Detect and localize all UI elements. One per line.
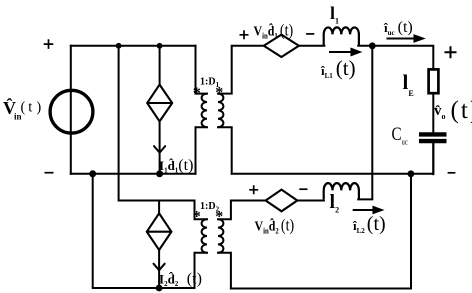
svg-text:îuc(t): îuc(t) xyxy=(383,19,413,37)
svg-text:Vind̂2(t): Vind̂2(t) xyxy=(255,216,295,235)
svg-text:Vind̂1(t): Vind̂1(t) xyxy=(254,21,294,40)
